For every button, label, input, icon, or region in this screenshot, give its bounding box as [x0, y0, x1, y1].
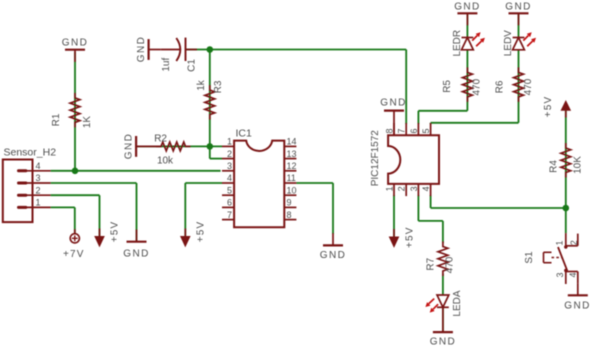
supply +7V [70, 229, 79, 243]
label LEDA [452, 290, 463, 316]
label Sensor_H2 [4, 147, 57, 159]
wire R5 to PIC pin 6 [418, 96, 467, 124]
svg-text:4: 4 [227, 173, 232, 183]
svg-text:10: 10 [287, 185, 297, 195]
resistor R3 [205, 85, 215, 120]
label GND LEDA [430, 337, 456, 348]
supply +5V PIC [389, 229, 400, 248]
svg-text:7: 7 [227, 210, 232, 220]
pin number 2 IC1 [227, 149, 232, 159]
label IC1 [236, 128, 253, 140]
pin number 3 Sensor_H2 [36, 173, 41, 183]
pin number 4 IC1 [227, 173, 232, 183]
svg-text:4: 4 [568, 273, 578, 278]
svg-text:4: 4 [36, 161, 41, 171]
svg-text:1: 1 [554, 240, 564, 245]
svg-text:GND: GND [124, 133, 135, 159]
pin number 2 Sensor_H2 [36, 185, 41, 195]
node R4 / S1 / PIC pin 4 junction [563, 205, 570, 212]
value 1K [82, 116, 93, 129]
ground S1 [568, 283, 588, 295]
pin number 4 Sensor_H2 [36, 161, 41, 171]
capacitor C1 [161, 38, 197, 61]
svg-text:GND: GND [380, 98, 406, 109]
ground LEDR [457, 13, 477, 25]
label GND IC1 [320, 250, 346, 261]
label +5V IC1 [195, 221, 206, 243]
svg-text:S1: S1 [524, 251, 535, 264]
connector Sensor_H2 body [3, 160, 33, 223]
svg-text:R2: R2 [154, 134, 167, 145]
label R6 [495, 80, 506, 93]
svg-text:1: 1 [227, 137, 232, 147]
supply +5V R4 [561, 100, 572, 118]
label PIC12F1572 [370, 130, 381, 187]
pin number 6 PIC [409, 128, 419, 133]
wire junction to IC1 pin 2 [210, 146, 222, 158]
resistor R4 [561, 143, 571, 178]
label R5 [442, 80, 453, 93]
svg-text:2: 2 [397, 186, 407, 191]
pin number 4 PIC [421, 186, 431, 191]
label +7V [63, 249, 85, 260]
svg-text:3: 3 [227, 161, 232, 171]
node C1 / R3 junction [207, 46, 214, 53]
value 1uf [161, 58, 172, 72]
value 10K [572, 156, 583, 174]
wire C1 to PIC pin 7 [187, 50, 407, 125]
pin number 2 S1 [569, 240, 579, 245]
svg-text:8: 8 [385, 128, 395, 133]
label R7 [425, 257, 436, 270]
pin number 6 IC1 [227, 198, 232, 208]
pin number 11 IC1 [287, 173, 296, 183]
svg-text:470: 470 [472, 78, 483, 95]
led LEDR [462, 32, 485, 50]
value 470 R7 [445, 256, 456, 273]
resistor R7 [438, 242, 448, 277]
value 470 R5 [472, 78, 483, 95]
wire PIC pin 1 to +5V [393, 195, 395, 237]
pin number 1 IC1 [227, 137, 232, 147]
pin number 8 IC1 [287, 210, 292, 220]
resistor R5 [463, 67, 473, 102]
pin number 1 S1 [554, 240, 564, 245]
svg-text:Sensor_H2: Sensor_H2 [4, 147, 57, 159]
svg-text:3: 3 [555, 273, 565, 278]
value 1k [196, 79, 207, 91]
svg-text:+7V: +7V [63, 249, 85, 260]
svg-text:5: 5 [421, 128, 431, 133]
connector Sensor_H2 pin 2 pad [17, 194, 51, 197]
switch S1 [544, 233, 578, 284]
label S1 [524, 251, 535, 264]
wire R2 to IC1 pin 1 [136, 145, 222, 147]
svg-text:12: 12 [287, 161, 297, 171]
svg-text:+5V: +5V [405, 226, 416, 248]
svg-text:R6: R6 [495, 80, 506, 93]
svg-text:LEDV: LEDV [503, 30, 514, 56]
wire C1 junction through R3 to R2/IC1 pin 1 [209, 50, 211, 147]
svg-text:+5V: +5V [195, 221, 206, 243]
ground R2 [136, 136, 161, 157]
pin number 5 PIC [421, 128, 431, 133]
ground LEDV [509, 13, 529, 25]
pin number 10 IC1 [287, 185, 297, 195]
resistor R2 [156, 142, 191, 151]
svg-text:470: 470 [445, 256, 456, 273]
svg-text:4: 4 [421, 186, 431, 191]
wire IC1 pin 11 to GND [296, 183, 333, 234]
resistor R6 [514, 67, 524, 102]
svg-text:5: 5 [227, 185, 232, 195]
svg-text:GND: GND [505, 2, 531, 13]
svg-text:LEDR: LEDR [452, 30, 463, 57]
wire sensor pin 3 to GND [51, 183, 137, 241]
svg-text:14: 14 [287, 137, 297, 147]
svg-text:C1: C1 [186, 59, 197, 72]
pin number 12 IC1 [287, 161, 297, 171]
led LEDV [513, 32, 536, 50]
svg-text:2: 2 [36, 185, 41, 195]
wire sensor pin 2 to +5V [51, 195, 100, 236]
svg-text:3: 3 [409, 186, 419, 191]
pin number 9 IC1 [287, 198, 292, 208]
svg-text:GND: GND [136, 36, 147, 62]
pin number 2 PIC [397, 186, 407, 191]
pin number 3 IC1 [227, 161, 232, 171]
node R2 / R3 / IC1 junction [207, 143, 214, 150]
pin number 5 IC1 [227, 185, 232, 195]
ic U1 PIC12F1572 body [388, 123, 439, 196]
svg-text:GND: GND [62, 38, 88, 49]
node sensor pin 4 / R1 junction [72, 168, 79, 175]
svg-text:GND: GND [454, 2, 480, 13]
resistor R1 [70, 93, 80, 128]
connector Sensor_H2 pin 3 pad [17, 182, 51, 185]
label +5V R4 [543, 96, 554, 118]
svg-text:10k: 10k [157, 156, 174, 167]
pin number 7 PIC [397, 128, 407, 133]
svg-text:R1: R1 [51, 113, 62, 126]
wire IC1 pin 4 to +5V [185, 183, 222, 236]
svg-text:GND: GND [123, 249, 149, 260]
wire PIC pin 4 to R4/S1 node [431, 195, 566, 208]
label R1 [51, 113, 62, 126]
pin number 1 PIC [385, 186, 395, 191]
svg-text:PIC12F1572: PIC12F1572 [370, 130, 381, 187]
label C1 [186, 59, 197, 72]
value 470 R6 [523, 78, 534, 95]
label GND LEDV [505, 2, 531, 13]
supply +5V IC1 [180, 229, 191, 248]
svg-text:GND: GND [564, 301, 590, 312]
pin number 4 S1 [568, 273, 578, 278]
label +5V sensor [110, 221, 121, 243]
pin number 14 IC1 [287, 137, 297, 147]
pin number 13 IC1 [287, 149, 297, 159]
wire GND to LEDV to R6 [518, 13, 520, 96]
label R4 [549, 160, 560, 173]
wire GND to LEDR to R5 [466, 13, 468, 96]
pin number 8 PIC [385, 128, 395, 133]
svg-text:GND: GND [320, 250, 346, 261]
pin number 7 IC1 [227, 210, 232, 220]
label GND LEDR [454, 2, 480, 13]
connector Sensor_H2 pin 1 pad [17, 206, 51, 209]
wire R7 to LEDA to GND [442, 274, 444, 331]
svg-text:6: 6 [227, 198, 232, 208]
svg-text:1: 1 [385, 186, 395, 191]
svg-text:1K: 1K [82, 116, 93, 129]
label R2 [154, 134, 167, 145]
label +5V PIC [405, 226, 416, 248]
svg-text:7: 7 [397, 128, 407, 133]
label GND S1 [564, 301, 590, 312]
wire sensor pin 1 to +7V [51, 207, 75, 234]
ground LEDA [433, 307, 453, 332]
svg-text:R4: R4 [549, 160, 560, 173]
svg-text:LEDA: LEDA [452, 290, 463, 316]
wire R6 to PIC pin 5 [431, 96, 519, 124]
svg-text:1k: 1k [196, 79, 207, 91]
label GND C1 [136, 36, 147, 62]
led LEDA [425, 295, 448, 313]
ground IC1 pin 11 [323, 233, 343, 245]
svg-text:3: 3 [36, 173, 41, 183]
svg-text:10K: 10K [572, 156, 583, 174]
ground above R1 [65, 50, 85, 62]
svg-text:R3: R3 [213, 80, 224, 93]
label GND above R1 [62, 38, 88, 49]
supply +5V sensor [94, 229, 105, 248]
connector Sensor_H2 pin 4 pad [17, 169, 51, 172]
label R3 [213, 80, 224, 93]
wire PIC pin 3 to R7 [418, 195, 443, 243]
svg-text:6: 6 [409, 128, 419, 133]
svg-text:9: 9 [287, 198, 292, 208]
svg-text:11: 11 [287, 173, 296, 183]
svg-text:IC1: IC1 [236, 128, 253, 140]
svg-text:470: 470 [523, 78, 534, 95]
pin number 1 Sensor_H2 [36, 198, 41, 208]
label GND PIC [380, 98, 406, 109]
ground C1 [149, 39, 161, 60]
label LEDV [503, 30, 514, 56]
svg-text:2: 2 [227, 149, 232, 159]
svg-text:GND: GND [430, 337, 456, 347]
svg-text:+5V: +5V [543, 96, 554, 118]
pin number 3 S1 [555, 273, 565, 278]
svg-text:1uf: 1uf [161, 58, 172, 72]
ground sensor pin 3 [127, 230, 147, 242]
wire GND to R1 to sensor pin 4 bus [51, 52, 221, 171]
wire +5V through R4 to S1 [565, 110, 567, 233]
ground PIC pin 8 [384, 111, 404, 136]
pin number 3 PIC [409, 186, 419, 191]
svg-text:+5V: +5V [110, 221, 121, 243]
svg-text:R5: R5 [442, 80, 453, 93]
label GND R2 [124, 133, 135, 159]
label LEDR [452, 30, 463, 57]
svg-text:R7: R7 [425, 257, 436, 270]
op-amp IC1 body [222, 141, 296, 228]
svg-text:2: 2 [569, 240, 579, 245]
value 10k [157, 156, 174, 167]
svg-text:1: 1 [36, 198, 41, 208]
svg-text:13: 13 [287, 149, 297, 159]
label GND sensor [123, 249, 149, 260]
svg-text:8: 8 [287, 210, 292, 220]
